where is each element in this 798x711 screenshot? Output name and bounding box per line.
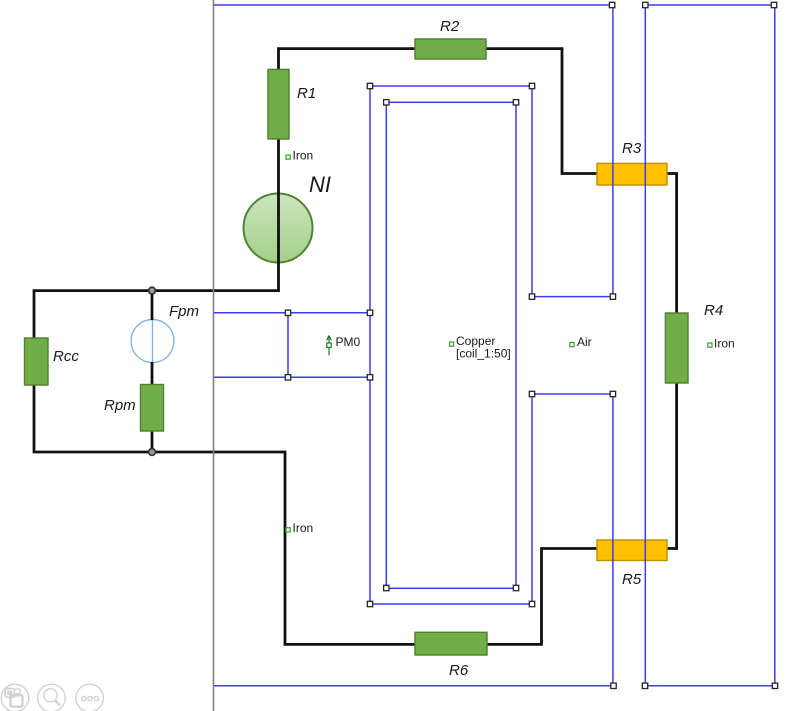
node bottom bbox=[149, 449, 156, 456]
svg-text:PM0: PM0 bbox=[336, 335, 361, 349]
material Copper [coil_1:50] bbox=[450, 334, 511, 361]
resistor R4 bbox=[665, 313, 688, 383]
svg-text:R3: R3 bbox=[622, 140, 642, 157]
svg-text:Iron: Iron bbox=[714, 337, 735, 351]
svg-text:NI: NI bbox=[309, 172, 331, 197]
svg-text:R4: R4 bbox=[704, 302, 723, 319]
geometry vertical x775 bbox=[774, 5, 776, 686]
material Air bbox=[570, 335, 592, 349]
resistor Rcc bbox=[25, 338, 49, 385]
coil outer outline bbox=[370, 86, 532, 604]
svg-text:R2: R2 bbox=[440, 18, 460, 35]
wire R1 bottom through NI to node bbox=[152, 139, 279, 291]
svg-text:R1: R1 bbox=[297, 85, 316, 102]
node top bbox=[149, 287, 156, 294]
svg-text:R5: R5 bbox=[622, 571, 642, 588]
geometry top edge bbox=[214, 4, 774, 6]
wire R6 left to bottom node bbox=[152, 452, 415, 644]
resistor R1 bbox=[268, 69, 289, 139]
svg-text:Rcc: Rcc bbox=[53, 348, 79, 365]
wire R5 left to R6 right bbox=[487, 549, 597, 645]
svg-text:Iron: Iron bbox=[293, 521, 314, 535]
selection handles bbox=[285, 2, 777, 688]
svg-text:Air: Air bbox=[577, 335, 592, 349]
geometry bottom edge bbox=[214, 685, 775, 687]
material Iron bottom bbox=[286, 521, 313, 535]
wire R4 to R5 right bbox=[667, 383, 677, 549]
coil inner outline bbox=[386, 102, 516, 588]
wire Fpm branch bbox=[151, 291, 154, 452]
toolbar icon pages bbox=[1, 684, 29, 711]
resistor R5 bbox=[597, 540, 667, 561]
svg-text:[coil_1:50]: [coil_1:50] bbox=[456, 347, 511, 361]
flux source Fpm bbox=[131, 320, 174, 363]
resistor R2 bbox=[415, 39, 486, 59]
toolbar icon zoom bbox=[38, 684, 66, 711]
material Iron right bbox=[708, 337, 735, 351]
wire R3 right to R4 bbox=[667, 174, 677, 314]
material PM0 bbox=[327, 335, 361, 356]
magnet region lines bbox=[214, 313, 370, 378]
resistor R3 bbox=[597, 163, 667, 185]
resistor Rpm bbox=[141, 385, 164, 432]
air gap region lines bbox=[532, 297, 613, 394]
wire left branch Rcc bbox=[34, 291, 152, 452]
geometry left boundary (gray) bbox=[213, 0, 215, 711]
toolbar icon more bbox=[76, 684, 104, 711]
wire R1 top to R2 to corner bbox=[279, 49, 598, 174]
svg-text:Rpm: Rpm bbox=[104, 397, 136, 414]
svg-text:R6: R6 bbox=[449, 662, 469, 679]
geometry vertical x613 bbox=[612, 5, 614, 686]
material Iron upper bbox=[286, 149, 313, 163]
geometry vertical x645 bbox=[644, 5, 646, 686]
resistor R6 bbox=[415, 632, 487, 655]
MMF source NI bbox=[244, 194, 313, 263]
svg-text:Iron: Iron bbox=[293, 149, 314, 163]
svg-text:Fpm: Fpm bbox=[169, 303, 199, 320]
